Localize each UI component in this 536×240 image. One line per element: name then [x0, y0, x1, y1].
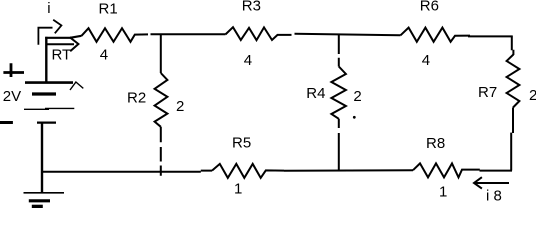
svg-text:R2: R2 [127, 90, 146, 107]
wire bottom rail R5 to R8 [284, 169, 413, 172]
wire R4 top lead [338, 34, 340, 66]
resistor R5 [212, 164, 284, 178]
resistor R1 [82, 28, 149, 42]
wire top rail R1 to R3 [151, 33, 226, 35]
resistor R7 [507, 55, 520, 108]
resistor R4 [331, 67, 346, 119]
svg-text:1: 1 [439, 184, 447, 201]
svg-text:R1: R1 [99, 0, 118, 17]
current arrow i8 [475, 182, 510, 184]
resistor R2 [155, 73, 168, 127]
svg-text:2V: 2V [3, 88, 21, 105]
svg-text:2: 2 [529, 87, 536, 104]
current arrow RT [48, 43, 75, 45]
svg-text:R6: R6 [420, 0, 439, 15]
wire top rail right to corner [468, 35, 513, 37]
svg-text:4: 4 [422, 52, 430, 69]
svg-text:RT: RT [52, 47, 72, 64]
resistor R3 [226, 27, 292, 40]
voltage source V1 plate 2 [32, 92, 56, 95]
wire top rail R3 to R6 [295, 34, 401, 35]
voltage source V1 plate 4 [37, 121, 56, 123]
wire top rail left [45, 36, 81, 38]
wire right vertical lower [511, 108, 513, 171]
wire right vertical upper [512, 36, 514, 55]
ground [24, 192, 65, 194]
polarity minus [0, 121, 13, 124]
wire R2 bottom lead [160, 127, 162, 176]
resistor R8 [413, 163, 480, 177]
svg-text:2: 2 [176, 98, 184, 115]
wire bottom right corner [480, 170, 513, 172]
polarity plus [3, 63, 24, 77]
svg-text:R8: R8 [426, 135, 445, 152]
svg-text:1: 1 [234, 181, 242, 198]
voltage source V1 plate 3 [24, 107, 74, 110]
svg-text:R4: R4 [306, 85, 325, 102]
current arrow i [38, 28, 52, 45]
svg-text:i 8: i 8 [486, 188, 502, 205]
svg-text:4: 4 [244, 52, 252, 69]
svg-text:R3: R3 [242, 0, 261, 15]
wire bottom rail left [42, 171, 213, 172]
resistor R6 [401, 28, 471, 42]
svg-text:2: 2 [353, 88, 361, 105]
svg-text:R7: R7 [478, 84, 497, 101]
wire source top vertical [45, 37, 47, 83]
stray caret mark [70, 82, 83, 90]
stray dot node mark [353, 116, 356, 119]
wire R4 bottom lead [338, 119, 340, 171]
svg-text:4: 4 [100, 47, 108, 64]
wire R2 top lead [160, 34, 162, 73]
wire source bottom vertical [41, 123, 43, 193]
svg-text:R5: R5 [232, 134, 251, 151]
voltage source V1 plate 1 [25, 81, 73, 84]
svg-text:i: i [47, 0, 50, 17]
